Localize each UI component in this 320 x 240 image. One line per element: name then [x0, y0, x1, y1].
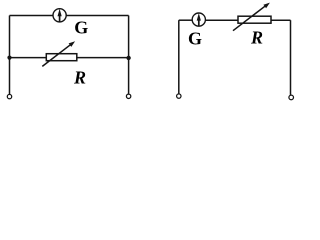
terminal bottom-right [126, 94, 130, 98]
label G (left) [74, 17, 88, 37]
svg-text:R: R [250, 27, 263, 47]
galvanometer G (left) [53, 9, 66, 22]
wire top segment c [271, 19, 291, 21]
wire middle-right segment [77, 57, 129, 59]
terminal bottom-left [7, 94, 11, 98]
terminal bottom-left (right circuit) [177, 94, 181, 98]
wire top segment b [205, 19, 238, 21]
wire right rail (right circuit) [290, 20, 292, 95]
wire top-left segment [10, 15, 54, 17]
wire left rail (right circuit) [178, 20, 180, 93]
svg-text:R: R [73, 67, 86, 87]
wire top-right segment [66, 15, 128, 17]
svg-text:G: G [74, 17, 88, 37]
junction left [7, 56, 11, 60]
wire right rail [128, 16, 130, 94]
rheostat R (left) [42, 41, 77, 66]
junction right [126, 56, 130, 60]
galvanometer G (right) [192, 13, 205, 26]
label R (left) [73, 67, 86, 87]
wire middle-left segment [10, 57, 47, 59]
wire top segment a [179, 19, 192, 21]
label R (right) [250, 27, 263, 47]
label G (right) [188, 28, 202, 48]
wire left rail [9, 16, 11, 95]
rheostat R (right) [233, 3, 271, 31]
terminal bottom-right (right circuit) [289, 95, 294, 100]
svg-text:G: G [188, 28, 202, 48]
